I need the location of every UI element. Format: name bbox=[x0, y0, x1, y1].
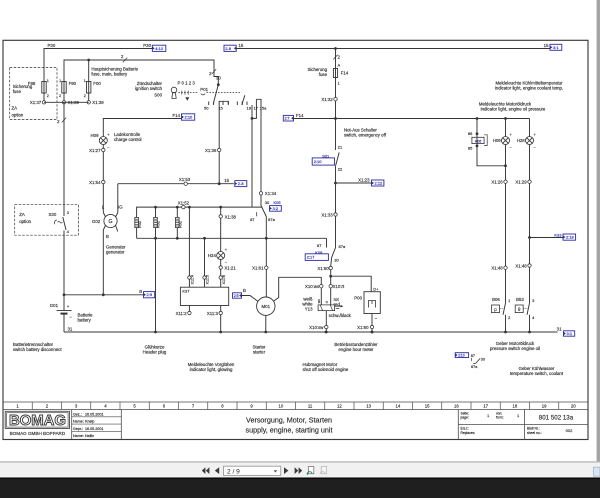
terminal X1:27 bbox=[102, 148, 105, 151]
svg-text:87a: 87a bbox=[268, 217, 275, 222]
svg-text:X1:39: X1:39 bbox=[92, 100, 104, 105]
svg-text:indicator light, glowing: indicator light, glowing bbox=[190, 367, 233, 372]
reference box 2:10 (S01) bbox=[312, 158, 334, 165]
wire P30 top-left bbox=[44, 49, 152, 82]
svg-text:X1:37: X1:37 bbox=[30, 100, 42, 105]
terminal X1:60 (P00) bbox=[370, 325, 373, 328]
svg-text:2:10: 2:10 bbox=[458, 354, 465, 358]
svg-text:P30: P30 bbox=[48, 43, 56, 48]
svg-text:2-8: 2-8 bbox=[238, 181, 245, 186]
terminal X11:4 bbox=[188, 276, 191, 279]
svg-text:F88: F88 bbox=[28, 81, 36, 86]
svg-text:F90: F90 bbox=[69, 81, 77, 86]
reference box 2:9 bbox=[144, 292, 155, 298]
svg-text:F14: F14 bbox=[173, 113, 181, 118]
svg-text:P00: P00 bbox=[354, 296, 362, 301]
svg-text:Versorgung, Motor, Starten: Versorgung, Motor, Starten bbox=[246, 415, 332, 424]
svg-text:2: 2 bbox=[84, 94, 86, 98]
resistor R02 c bbox=[176, 207, 178, 217]
junction X1:36 drop bbox=[218, 182, 221, 185]
svg-text:Name:: Name: bbox=[73, 420, 84, 424]
svg-text:H09: H09 bbox=[493, 138, 502, 143]
svg-text:switch, emergency off: switch, emergency off bbox=[344, 133, 387, 138]
svg-text:3:1: 3:1 bbox=[567, 331, 573, 336]
ignition pin x=228.3 bbox=[227, 102, 229, 106]
ZA option dashed box (fuse) bbox=[10, 68, 57, 120]
terminal X1:39 bbox=[62, 101, 65, 104]
svg-text:sheet no.:: sheet no.: bbox=[527, 431, 542, 435]
svg-text:generator: generator bbox=[106, 250, 125, 255]
svg-text:15: 15 bbox=[425, 403, 430, 408]
toolbar next-view icon (disabled) bbox=[321, 467, 326, 474]
svg-text:P30: P30 bbox=[143, 43, 151, 48]
svg-text:X11:6: X11:6 bbox=[222, 275, 226, 285]
toolbar right corner button bbox=[593, 467, 600, 476]
svg-text:1: 1 bbox=[47, 79, 49, 83]
wire 15a to X1:34 bbox=[256, 99, 261, 191]
wire H09 charge lamp feed bbox=[103, 119, 181, 137]
terminal X10:ws bbox=[320, 285, 323, 288]
svg-text:−: − bbox=[69, 315, 72, 320]
svg-text:ZA: ZA bbox=[12, 106, 18, 111]
bottom black strip bbox=[0, 478, 600, 498]
svg-text:BOMAG GMBH BOPPARD: BOMAG GMBH BOPPARD bbox=[10, 431, 66, 436]
svg-text:2:10: 2:10 bbox=[314, 159, 323, 164]
svg-text:X1:38: X1:38 bbox=[225, 214, 237, 219]
svg-text:shut off solenoid engine: shut off solenoid engine bbox=[303, 367, 349, 372]
svg-text:31: 31 bbox=[68, 327, 73, 332]
toolbar last-page button bbox=[295, 467, 299, 474]
terminal X1:33 bbox=[334, 213, 337, 216]
wire bus 15R (F14 feed) bbox=[294, 118, 530, 120]
junction F00 branch bbox=[87, 59, 90, 62]
reference box 2:7 bbox=[283, 115, 293, 121]
svg-text:87a: 87a bbox=[339, 244, 346, 249]
schematic border frame bbox=[3, 40, 588, 439]
terminal X1:39 (F00) bbox=[87, 101, 90, 104]
svg-text:option: option bbox=[12, 113, 24, 118]
wire glow bus upper bbox=[137, 207, 262, 217]
svg-text:X11:2: X11:2 bbox=[176, 311, 188, 316]
svg-text:R02: R02 bbox=[138, 221, 142, 228]
svg-text:16.05.2001: 16.05.2001 bbox=[85, 412, 103, 416]
wire glow bus lower bbox=[137, 237, 327, 239]
svg-text:S00: S00 bbox=[154, 93, 162, 98]
wire generator IG to X1:53 bbox=[116, 184, 184, 217]
svg-text:3:2: 3:2 bbox=[273, 206, 279, 211]
fuse F88 bbox=[42, 82, 46, 94]
svg-text:S30: S30 bbox=[49, 212, 57, 217]
relay contact K06 blade bbox=[332, 248, 336, 258]
reference box 2:17 (K06) bbox=[305, 254, 328, 261]
svg-text:ZA: ZA bbox=[19, 212, 25, 217]
svg-text:temperature switch, coolant: temperature switch, coolant bbox=[510, 371, 564, 376]
fuse F00 bbox=[87, 82, 91, 94]
svg-text:K06: K06 bbox=[475, 139, 481, 143]
wire glow plug drop bbox=[155, 238, 157, 332]
wire coil to lamp minus bus bbox=[477, 146, 506, 166]
svg-text:K37: K37 bbox=[182, 289, 190, 294]
svg-text:19: 19 bbox=[246, 106, 251, 111]
resistor R02 a bbox=[135, 217, 139, 227]
toolbar background bbox=[0, 463, 600, 478]
terminal X1:29 bbox=[528, 180, 531, 183]
svg-text:P 0 1 2 3: P 0 1 2 3 bbox=[178, 81, 196, 86]
svg-text:15: 15 bbox=[224, 178, 229, 183]
junction F14 branch bbox=[334, 47, 337, 50]
column number strip bbox=[3, 401, 588, 403]
svg-text:30: 30 bbox=[265, 200, 270, 205]
reference box 3:2 (K05) bbox=[270, 206, 282, 212]
svg-text:F14: F14 bbox=[341, 71, 349, 76]
svg-text:pressure switch engine oil: pressure switch engine oil bbox=[490, 346, 540, 351]
svg-text:30: 30 bbox=[216, 76, 221, 81]
ignition switch contacts bbox=[217, 83, 220, 86]
svg-text:X1:33: X1:33 bbox=[321, 212, 333, 217]
svg-text:X1:21: X1:21 bbox=[224, 265, 236, 270]
svg-text:15: 15 bbox=[239, 43, 244, 48]
svg-text:starter: starter bbox=[253, 349, 266, 354]
svg-text:schw./black: schw./black bbox=[329, 313, 352, 318]
svg-text:X1:54: X1:54 bbox=[89, 180, 101, 185]
terminal X1:38 bbox=[219, 215, 222, 218]
svg-text:G02: G02 bbox=[92, 219, 101, 224]
starter M01 bbox=[257, 297, 275, 315]
svg-text:X11:3: X11:3 bbox=[207, 311, 219, 316]
svg-text:BOMAG: BOMAG bbox=[9, 413, 66, 429]
svg-text:12: 12 bbox=[337, 403, 342, 408]
svg-text:X10:ws: X10:ws bbox=[305, 284, 320, 289]
svg-text:X1:48: X1:48 bbox=[491, 266, 503, 271]
ZA option dashed box (battery disconnect) bbox=[15, 205, 79, 236]
wire H28 lamp feed corner bbox=[529, 119, 531, 137]
svg-text:17: 17 bbox=[483, 403, 488, 408]
toolbar first-page button bbox=[202, 467, 206, 474]
svg-text:R02: R02 bbox=[157, 221, 161, 228]
svg-text:2: 2 bbox=[47, 94, 49, 98]
wire starter to X10:ws bbox=[274, 277, 322, 301]
svg-text:indicator light, engine coolan: indicator light, engine coolant temp. bbox=[495, 86, 563, 91]
svg-text:2:18: 2:18 bbox=[566, 235, 575, 240]
wire 2 (battery main) bbox=[64, 60, 218, 85]
toolbar page number box bbox=[224, 466, 281, 475]
svg-text:Kneip: Kneip bbox=[85, 420, 94, 424]
svg-text:21: 21 bbox=[338, 145, 343, 150]
lamp H34 glow indicator bbox=[217, 252, 225, 260]
svg-text:battery: battery bbox=[78, 318, 92, 323]
svg-text:2:10: 2:10 bbox=[185, 115, 194, 120]
svg-text:X1:52: X1:52 bbox=[178, 201, 190, 206]
title block dividers bbox=[71, 410, 73, 440]
svg-text:ws: ws bbox=[317, 299, 321, 303]
BOMAG logo box bbox=[5, 411, 69, 428]
terminal X1:54 bbox=[102, 180, 105, 183]
svg-text:11: 11 bbox=[308, 403, 313, 408]
ignition pin x=208.7 bbox=[208, 102, 210, 106]
svg-text:30: 30 bbox=[481, 358, 485, 362]
terminal X1:32 bbox=[334, 98, 337, 101]
svg-text:X1:53: X1:53 bbox=[179, 177, 191, 182]
svg-text:X1:27: X1:27 bbox=[89, 148, 101, 153]
svg-text:page:: page: bbox=[461, 416, 469, 420]
wire battery bus to 2:9 box bbox=[64, 294, 144, 296]
ignition key symbol bbox=[171, 87, 177, 93]
wire to hour meter P00 bbox=[331, 276, 372, 292]
svg-text:Replaces:: Replaces: bbox=[461, 431, 476, 435]
reference box 2:5 (starter B) bbox=[233, 293, 242, 298]
ignition 15 bracket to X1:36 bbox=[219, 101, 228, 148]
ignition pin x=247.0 bbox=[246, 102, 248, 106]
junction generator B to battery bus bbox=[102, 293, 105, 296]
svg-text:87: 87 bbox=[250, 217, 255, 222]
svg-text:charge control: charge control bbox=[114, 137, 142, 142]
svg-text:22: 22 bbox=[338, 166, 343, 171]
svg-text:B53: B53 bbox=[516, 297, 524, 302]
terminal X10:rt bbox=[329, 285, 332, 288]
svg-text:14: 14 bbox=[396, 403, 401, 408]
svg-text:B06: B06 bbox=[492, 297, 500, 302]
svg-text:002: 002 bbox=[566, 428, 573, 433]
svg-text:X11:5: X11:5 bbox=[206, 275, 210, 285]
toolbar previous-page button bbox=[215, 467, 219, 474]
svg-text:fuse: fuse bbox=[319, 72, 328, 77]
lamp H09 charge control bbox=[99, 137, 107, 145]
svg-text:G01: G01 bbox=[50, 303, 59, 308]
svg-text:X1:60: X1:60 bbox=[357, 325, 369, 330]
wire battery feed down bbox=[63, 102, 65, 216]
svg-text:85: 85 bbox=[468, 146, 473, 151]
lamp H28 coolant temp bbox=[526, 137, 534, 145]
reference box 2-8 (wire 15) bbox=[235, 181, 247, 187]
svg-text:86: 86 bbox=[468, 131, 473, 136]
relay contact K06 87 stub bbox=[326, 238, 328, 247]
svg-text:87a: 87a bbox=[471, 365, 478, 369]
svg-text:31: 31 bbox=[557, 327, 562, 332]
wire X1:23 branch bbox=[334, 182, 337, 185]
wire generator B down bbox=[103, 226, 105, 295]
wire X10:rt drop bbox=[330, 276, 332, 284]
svg-text:IG: IG bbox=[118, 205, 123, 210]
svg-text:A: A bbox=[338, 64, 341, 68]
svg-text:G: G bbox=[108, 219, 112, 225]
glow control unit K37 bbox=[180, 287, 228, 305]
wire 2:5 box to starter bbox=[242, 296, 258, 302]
svg-text:F14: F14 bbox=[296, 113, 304, 118]
svg-text:D+: D+ bbox=[373, 287, 379, 292]
svg-text:3:1: 3:1 bbox=[553, 45, 559, 50]
toolbar previous-view icon bbox=[308, 467, 313, 474]
svg-text:15: 15 bbox=[544, 43, 549, 48]
generator B right stub bbox=[116, 226, 118, 232]
svg-text:2:17: 2:17 bbox=[307, 255, 316, 260]
wire X11:4 drop bbox=[188, 207, 190, 276]
svg-text:indicator light, engine oil pr: indicator light, engine oil pressure bbox=[481, 106, 546, 111]
page right edge shadow bbox=[597, 0, 600, 461]
svg-text:19: 19 bbox=[542, 403, 547, 408]
terminal X1:26 bbox=[504, 180, 507, 183]
svg-text:Y13: Y13 bbox=[305, 307, 313, 312]
svg-text:X1:32: X1:32 bbox=[321, 97, 333, 102]
svg-text:B: B bbox=[139, 289, 142, 294]
junction X1:60 node bbox=[329, 275, 332, 278]
ignition pin x=242.2 bbox=[241, 102, 243, 106]
svg-text:+: + bbox=[67, 304, 70, 309]
svg-text:1: 1 bbox=[84, 79, 86, 83]
reference box 2:18 (K33) bbox=[563, 234, 576, 240]
terminal X1:52 bbox=[182, 205, 185, 208]
svg-text:X1:23: X1:23 bbox=[358, 177, 370, 182]
svg-text:H28: H28 bbox=[517, 138, 526, 143]
reference box 2:12 bbox=[372, 180, 384, 186]
reference box 2:10 (F14 left) bbox=[182, 114, 195, 120]
svg-text:X1:34: X1:34 bbox=[265, 191, 277, 196]
relay coil K06 bbox=[476, 132, 479, 135]
svg-text:supply, engine, starting unit: supply, engine, starting unit bbox=[246, 425, 333, 434]
junction H09 lamp feed bbox=[504, 117, 507, 120]
svg-text:X1:48: X1:48 bbox=[515, 263, 527, 268]
svg-text:K33: K33 bbox=[554, 232, 562, 237]
svg-text:X10:sw: X10:sw bbox=[309, 325, 324, 330]
svg-text:801 502 13a: 801 502 13a bbox=[539, 415, 574, 422]
ignition pin x=213.6 bbox=[213, 102, 215, 106]
terminal X10:sw bbox=[325, 325, 328, 328]
wire starter to ground bbox=[265, 315, 267, 332]
svg-text:engine hour meter: engine hour meter bbox=[338, 347, 374, 352]
svg-text:2:9: 2:9 bbox=[147, 292, 153, 297]
terminal X11:5 bbox=[203, 276, 206, 279]
terminal X1:48 (B53) bbox=[528, 264, 531, 267]
terminal X1:60 bbox=[329, 266, 332, 269]
terminal X1:48 (B06) bbox=[504, 266, 507, 269]
svg-text:3: 3 bbox=[67, 211, 69, 215]
svg-text:X1:29: X1:29 bbox=[515, 180, 527, 185]
svg-text:4:10: 4:10 bbox=[155, 46, 164, 51]
svg-text:Ers.f.:: Ers.f.: bbox=[461, 426, 470, 430]
svg-text:rt: rt bbox=[325, 301, 329, 303]
svg-text:K05: K05 bbox=[274, 200, 282, 205]
ignition pin x=237.3 bbox=[236, 102, 238, 106]
svg-text:16: 16 bbox=[454, 403, 459, 408]
svg-text:X1:61: X1:61 bbox=[252, 266, 264, 271]
terminal X11:6 bbox=[219, 276, 222, 279]
svg-text:R02: R02 bbox=[179, 221, 183, 228]
svg-text:Gez.:: Gez.: bbox=[73, 412, 82, 416]
svg-text:H34: H34 bbox=[208, 253, 217, 258]
svg-text:X11:4: X11:4 bbox=[191, 275, 195, 285]
svg-text:Gepr.:: Gepr.: bbox=[73, 427, 83, 431]
fuse F90 bbox=[62, 82, 66, 94]
wire X11:5 drop bbox=[204, 238, 206, 275]
terminal X1:37 bbox=[42, 101, 45, 104]
svg-text:87: 87 bbox=[471, 354, 475, 358]
junction battery bus bbox=[63, 293, 66, 296]
svg-text:ignition switch: ignition switch bbox=[135, 86, 163, 91]
svg-text:2:5: 2:5 bbox=[234, 294, 239, 298]
svg-text:X1:60: X1:60 bbox=[317, 266, 329, 271]
resistor R02 b bbox=[155, 207, 157, 217]
terminal X11:2 bbox=[188, 306, 190, 312]
svg-text:M01: M01 bbox=[262, 304, 271, 309]
svg-text:X1:36: X1:36 bbox=[205, 148, 217, 153]
svg-text:13: 13 bbox=[366, 403, 371, 408]
reference box 4:10 on P30 bbox=[152, 45, 166, 51]
svg-text:20: 20 bbox=[571, 403, 576, 408]
svg-text:1: 1 bbox=[59, 79, 61, 83]
junction R02 taps bbox=[154, 206, 157, 209]
svg-text:10: 10 bbox=[279, 403, 284, 408]
svg-text:Header plug: Header plug bbox=[143, 349, 167, 354]
ignition pin 17 wire down bbox=[251, 105, 253, 207]
wire X1:38 drop bbox=[220, 207, 222, 215]
svg-text:18: 18 bbox=[513, 403, 518, 408]
reference box 2-8 feeding wire 15 bbox=[224, 45, 236, 51]
svg-text:X1:26: X1:26 bbox=[491, 180, 503, 185]
terminal X1:21 bbox=[219, 266, 222, 269]
svg-text:H09: H09 bbox=[91, 133, 100, 138]
svg-text:30: 30 bbox=[334, 258, 339, 263]
terminal X11:3 bbox=[220, 306, 222, 312]
terminal X1:61 bbox=[265, 266, 268, 269]
ignition pin 15a jog bbox=[252, 99, 256, 118]
wire K05 87a to starter solenoid bbox=[265, 217, 267, 267]
svg-text:P01: P01 bbox=[200, 87, 208, 92]
ignition pin x=223.0 bbox=[222, 102, 224, 106]
terminal X1:34 bbox=[259, 192, 262, 195]
svg-text:87: 87 bbox=[317, 243, 322, 248]
junction dots ground bus bbox=[325, 331, 328, 334]
terminal X1:53 bbox=[184, 182, 187, 185]
svg-text:2-8: 2-8 bbox=[225, 46, 232, 51]
svg-text:50: 50 bbox=[204, 106, 209, 111]
key linkage bbox=[181, 91, 183, 95]
svg-text:4: 4 bbox=[67, 230, 69, 234]
toolbar top border bbox=[0, 461, 600, 462]
svg-text:B: B bbox=[243, 288, 246, 293]
svg-text:Nallin: Nallin bbox=[85, 434, 94, 438]
svg-text:Name:: Name: bbox=[73, 434, 84, 438]
K05 relay contact legend bottom right bbox=[455, 353, 468, 358]
svg-text:fuse: fuse bbox=[13, 89, 22, 94]
terminal X1:36 bbox=[218, 148, 221, 151]
toolbar next-page button bbox=[284, 467, 288, 474]
svg-text:Blatt Nr.:: Blatt Nr.: bbox=[527, 426, 540, 430]
svg-text:X10:rt: X10:rt bbox=[333, 284, 345, 289]
junction K06 coil feed bbox=[476, 117, 479, 120]
wire fuse outputs to battery feed bbox=[44, 101, 89, 103]
svg-text:switch battery disconnect: switch battery disconnect bbox=[13, 347, 62, 352]
svg-text:2:7: 2:7 bbox=[285, 117, 290, 121]
wire 15 top middle bbox=[236, 48, 550, 50]
junction K33 branch bbox=[528, 236, 531, 239]
hour meter P00 bbox=[364, 292, 380, 314]
lamp H09 oil pressure bbox=[502, 137, 510, 145]
drawn/checked dates bbox=[72, 416, 122, 418]
svg-text:option: option bbox=[19, 219, 31, 224]
svg-text:B: B bbox=[106, 234, 109, 239]
svg-text:2 / 9: 2 / 9 bbox=[227, 468, 240, 475]
svg-text:fuse, main, battery: fuse, main, battery bbox=[91, 72, 128, 77]
svg-text:F00: F00 bbox=[93, 81, 101, 86]
svg-text:from:: from: bbox=[496, 416, 504, 420]
reference box 3:1 ground bbox=[564, 331, 575, 336]
svg-text:2:12: 2:12 bbox=[375, 181, 384, 186]
svg-text:16.05.2001: 16.05.2001 bbox=[85, 427, 103, 431]
svg-text:2: 2 bbox=[59, 94, 61, 98]
svg-text:1: 1 bbox=[338, 82, 340, 86]
